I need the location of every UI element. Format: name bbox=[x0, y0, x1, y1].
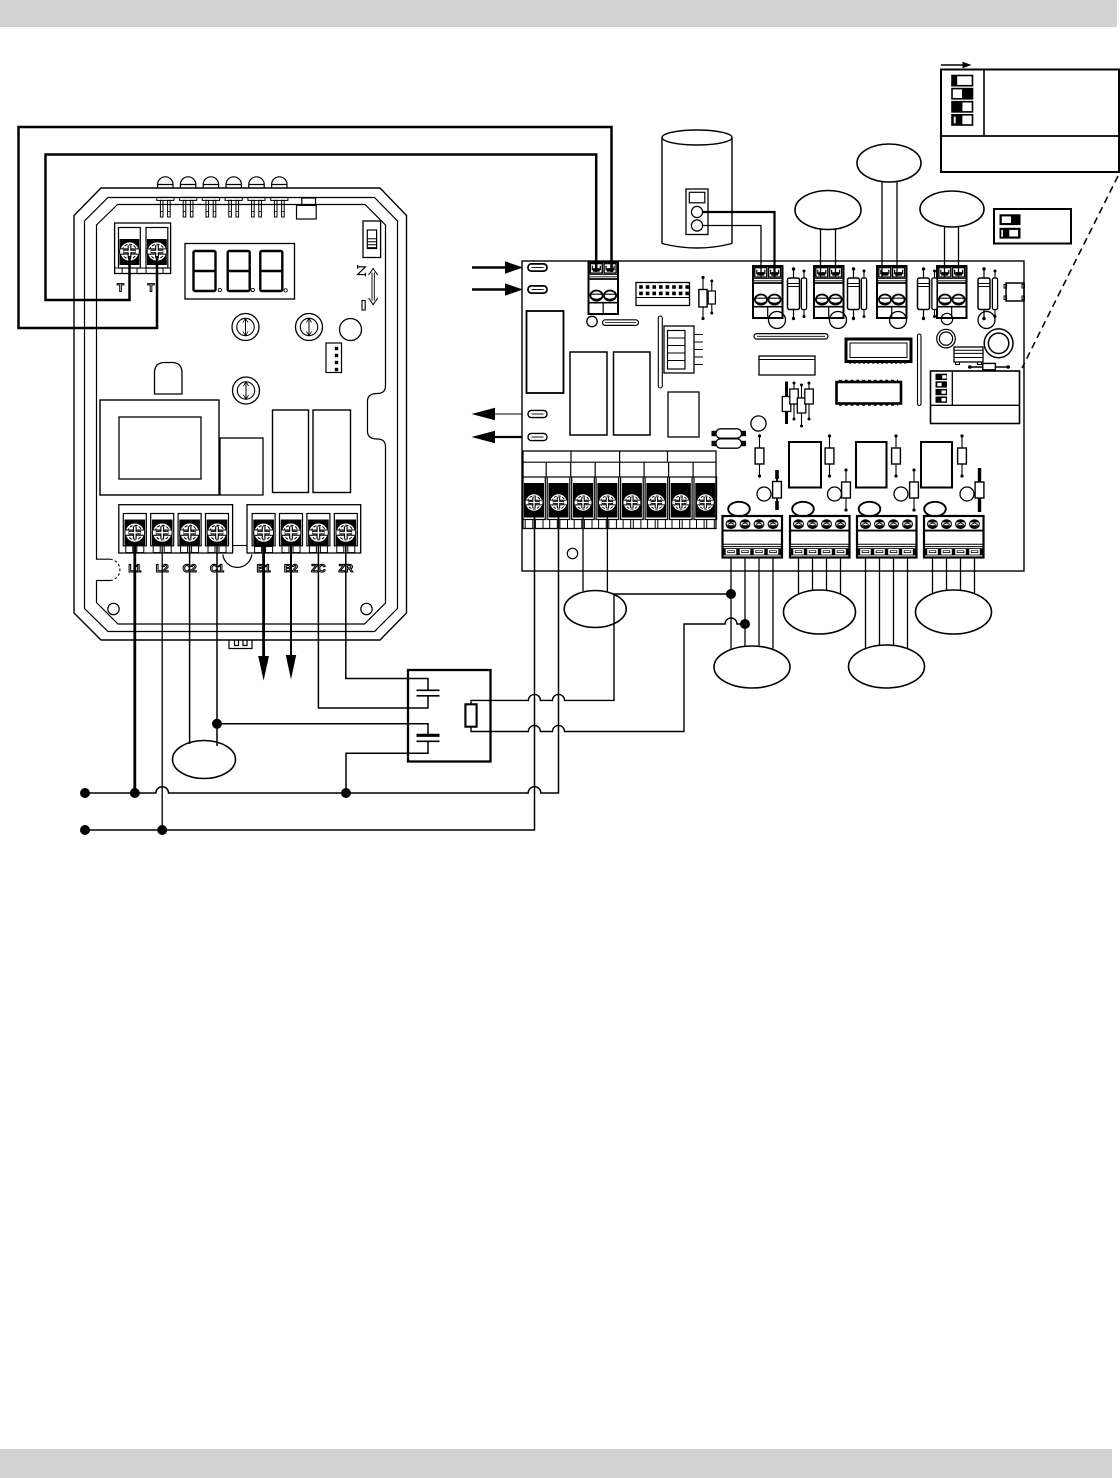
LED small under TB5 bbox=[941, 313, 952, 324]
small connector box top-right of pcb bbox=[297, 198, 317, 219]
board terminal block TB4 bbox=[877, 266, 907, 318]
pad oval P3 bbox=[859, 502, 881, 516]
strip second row dividers bbox=[546, 462, 693, 477]
wire TB7 pin2 down bbox=[812, 558, 814, 591]
junction dot L2 bus2 bbox=[157, 825, 167, 835]
svg-text:T: T bbox=[117, 282, 124, 294]
potentiometer RP2 bbox=[296, 314, 323, 341]
thermostat mounting hole left bbox=[108, 603, 119, 614]
callout oval B bbox=[714, 646, 790, 688]
wire TB6 pin2 down bbox=[744, 558, 746, 647]
T terminal block bbox=[115, 223, 171, 274]
main terminal strip frame bbox=[523, 451, 716, 529]
board terminal block TB3 bbox=[814, 266, 844, 318]
strip screw 4 bbox=[599, 494, 617, 512]
strip screw 3 bbox=[574, 494, 592, 512]
LED D1 bbox=[157, 177, 174, 217]
wire TB7 pin3 down bbox=[826, 558, 828, 591]
7-segment digit 2 bbox=[228, 251, 250, 291]
7-segment digit 1 bbox=[194, 251, 216, 291]
fuse jumper F5 bbox=[968, 363, 1010, 369]
thermostat middle case octagon bbox=[85, 198, 398, 632]
vertical bar right bbox=[918, 334, 922, 406]
switch range arrow bbox=[369, 269, 378, 305]
callout oval under strip bbox=[564, 591, 626, 628]
board terminal block TB5 bbox=[937, 266, 967, 318]
transformer T1 inner bbox=[119, 417, 201, 479]
strip terminal 4 bbox=[596, 477, 619, 529]
cylinder control panel bbox=[686, 189, 708, 235]
wire oval to TB3 pin2 bbox=[835, 229, 837, 277]
legend arrow bbox=[941, 62, 972, 68]
terminal T1 screw bbox=[120, 242, 140, 262]
twin cylinder component bbox=[712, 429, 747, 448]
wire C1 to capacitor C2 bbox=[217, 723, 408, 725]
LED D3 bbox=[202, 177, 219, 217]
fuse F2 bbox=[528, 286, 547, 293]
right terminal strip frame bbox=[247, 505, 361, 553]
board terminal block TB1 (thermostat input) bbox=[589, 262, 619, 314]
ring component bbox=[937, 329, 956, 348]
wire pass-through notch bbox=[223, 555, 252, 568]
7-segment digit 1 dot bbox=[218, 288, 221, 291]
junction dot bus1 return bbox=[341, 788, 351, 798]
LED L21 bbox=[757, 487, 771, 501]
label Z bbox=[358, 265, 366, 277]
LED L22 bbox=[828, 487, 842, 501]
junction dot TB6 pin1 bbox=[726, 589, 736, 599]
resistor R13 bbox=[932, 270, 937, 319]
diode row3 D27 bbox=[910, 468, 919, 511]
DIP switch module on board bbox=[931, 371, 1020, 424]
wire ZC to capacitor C1 bottom bbox=[318, 544, 408, 708]
buzzer circle bbox=[340, 319, 362, 341]
jumper JP1 bbox=[699, 276, 707, 320]
LED under TB4 bbox=[890, 312, 907, 329]
resistor R14 bbox=[992, 270, 997, 319]
sensor cylinder body bbox=[662, 130, 732, 248]
wire oval to TB5 pin2 bbox=[958, 227, 960, 278]
wire cylinder upper to TB2 bbox=[703, 212, 775, 277]
wire cylinder lower to TB2 bbox=[703, 226, 762, 278]
board terminal block TB2 bbox=[753, 266, 783, 318]
output terminal block TB9 bbox=[924, 516, 984, 558]
bus wire 2 bbox=[85, 512, 535, 830]
wire resistor bottom to TB6 pin2 bbox=[471, 618, 745, 732]
terminal ZR screw bbox=[336, 523, 356, 543]
crystal component with corner tabs bbox=[1004, 283, 1025, 301]
output terminal block TB7 bbox=[790, 516, 850, 558]
wire TB9 pin3 down bbox=[960, 558, 962, 592]
strip screw 8 bbox=[696, 494, 714, 512]
resistor R1 in box bbox=[465, 704, 476, 726]
terminal L1 unit bbox=[123, 514, 146, 553]
diode row3 D28 black bbox=[975, 468, 984, 512]
thermostat bottom tab bbox=[229, 641, 252, 649]
LED right bbox=[978, 312, 995, 329]
diode D11 bbox=[788, 267, 800, 320]
wire C2 terminal to oval bbox=[189, 544, 191, 744]
wire TB8 pin3 down bbox=[893, 558, 895, 646]
terminal B2 screw bbox=[281, 523, 301, 543]
long resistor bar R16 bbox=[754, 334, 828, 339]
resistor R12 bbox=[861, 270, 866, 319]
wire oval to TB4 pin2 bbox=[896, 182, 898, 278]
strip screw 6 bbox=[648, 494, 666, 512]
diode row2 D21 bbox=[755, 434, 764, 477]
capacitor C2 plates bbox=[417, 735, 440, 741]
bus wire 1 bbox=[85, 512, 559, 793]
wire strip4 to oval bbox=[606, 512, 608, 592]
wire TB9 pin1 down bbox=[932, 558, 934, 595]
diode row3 D26 bbox=[842, 468, 851, 511]
wire B1 arrow bbox=[258, 544, 269, 681]
wire TB8 pin4 down bbox=[907, 558, 909, 649]
capacitor C1 plates bbox=[417, 690, 440, 696]
relay K1 bbox=[273, 410, 309, 493]
terminal ZC screw bbox=[309, 523, 329, 543]
fuse F3 bbox=[528, 410, 547, 417]
diode row2 D22 bbox=[825, 434, 834, 477]
LCD module U3 bbox=[846, 339, 911, 363]
wire TB9 pin4 down bbox=[974, 558, 976, 595]
relay RY1 bbox=[570, 352, 607, 435]
resistor bar R15 bbox=[603, 320, 639, 326]
wire B2 arrow bbox=[286, 544, 296, 680]
connector J3 bbox=[664, 326, 703, 373]
input arrow 2 bbox=[472, 283, 523, 295]
wire TB7 pin1 down bbox=[798, 558, 800, 594]
relay RY4 bbox=[856, 442, 887, 488]
pad oval P4 bbox=[924, 502, 946, 516]
IC U4 bbox=[837, 381, 902, 405]
toroid coil bbox=[984, 329, 1013, 358]
board hole bbox=[567, 548, 577, 558]
wire thermostat T1 to board TB1 bbox=[46, 155, 597, 301]
terminal C2 unit bbox=[178, 514, 201, 553]
relay RY3 bbox=[789, 442, 821, 488]
wire TB6 pin1 down bbox=[730, 558, 732, 650]
junction dot TB6 pin2 bbox=[740, 619, 750, 629]
LED D6 bbox=[271, 177, 288, 217]
capacitor C1 bottom lead bbox=[408, 696, 428, 708]
bus wire 2 end dot bbox=[80, 825, 90, 835]
LED under TB1 bbox=[587, 316, 597, 326]
LED under TB3 bbox=[830, 312, 847, 329]
terminal C1 unit bbox=[206, 514, 229, 553]
terminal L1 screw bbox=[125, 523, 145, 543]
terminal C2 screw bbox=[180, 523, 200, 543]
resistor R11 bbox=[801, 270, 806, 319]
jumper cluster JP4 bbox=[790, 382, 799, 421]
capacitor block bbox=[220, 438, 263, 495]
wire resistor top to TB6 pin1 bbox=[471, 594, 731, 704]
7-segment digit 2 dot bbox=[251, 288, 254, 291]
strip terminal 7 bbox=[670, 477, 693, 529]
terminal L2 screw bbox=[152, 523, 172, 543]
strip terminal 3 bbox=[572, 477, 595, 529]
wire ZR to capacitor C1 bbox=[346, 544, 408, 679]
callout oval left bbox=[173, 741, 236, 779]
callout oval D bbox=[849, 645, 925, 688]
wire TB6 pin3 down bbox=[758, 558, 760, 646]
pad oval P1 bbox=[728, 502, 750, 516]
strip screw 2 bbox=[550, 494, 568, 512]
diode D12 bbox=[848, 267, 860, 320]
label I bbox=[362, 301, 365, 311]
callout oval over TB5 bbox=[920, 191, 984, 227]
jumper cluster JP3 bbox=[782, 382, 791, 425]
start component box bbox=[408, 670, 491, 762]
potentiometer RP3 bbox=[233, 377, 260, 404]
strip terminal 2 bbox=[547, 477, 570, 529]
transformer block on board bbox=[527, 311, 564, 393]
LED L24 bbox=[960, 487, 974, 501]
terminal L2 unit bbox=[151, 514, 174, 553]
terminal B2 unit bbox=[280, 514, 303, 553]
strip screw 7 bbox=[672, 494, 690, 512]
thermostat outer case octagon bbox=[74, 188, 407, 640]
left terminal strip frame bbox=[119, 505, 233, 553]
diode D13 bbox=[918, 267, 930, 320]
footer gray bar bbox=[0, 1449, 1112, 1478]
LED under TB2 bbox=[769, 312, 786, 329]
jumper cluster JP5 bbox=[797, 384, 806, 428]
input arrow 1 bbox=[472, 261, 523, 273]
wire TB8 pin2 down bbox=[879, 558, 881, 646]
sensor blob bbox=[155, 363, 183, 395]
strip top row line bbox=[523, 461, 716, 463]
terminal B1 screw bbox=[254, 523, 274, 543]
legend DIP box bbox=[941, 70, 1119, 173]
strip terminal 6 bbox=[645, 477, 668, 529]
callout oval over TB3 bbox=[795, 191, 861, 230]
LED D5 bbox=[248, 177, 265, 217]
strip terminal 8 bbox=[694, 477, 717, 529]
transformer T1 outer bbox=[100, 400, 219, 495]
7-segment digit 3 bbox=[260, 251, 282, 291]
wire TB6 pin4 down bbox=[772, 558, 774, 649]
callout oval C bbox=[784, 590, 856, 634]
jumper cluster JP6 bbox=[805, 382, 814, 421]
output terminal block TB8 bbox=[857, 516, 917, 558]
strip terminal 5 bbox=[621, 477, 644, 529]
strip terminal 1 bbox=[523, 477, 546, 529]
wire strip3 to oval bbox=[582, 512, 584, 591]
4-pin connector J1 bbox=[326, 343, 342, 373]
relay RY5 bbox=[921, 442, 952, 488]
strip second row line bbox=[523, 476, 716, 478]
vertical resistor bar bbox=[658, 316, 662, 388]
wire capacitor C2 return to bus bbox=[346, 753, 408, 793]
output arrow 1 bbox=[472, 408, 523, 420]
wire L1 to bus1 bbox=[133, 544, 136, 793]
slide switch SW1 bbox=[363, 221, 381, 258]
fuse F1 bbox=[528, 264, 547, 271]
wire oval to TB4 pin1 bbox=[881, 182, 883, 278]
output arrow 2 bbox=[472, 431, 523, 443]
strip screw 5 bbox=[623, 494, 641, 512]
circle pad under strip bbox=[751, 416, 766, 431]
wire oval to TB5 pin1 bbox=[944, 227, 946, 278]
header gray bar bbox=[0, 0, 1117, 27]
capacitor C1 top lead bbox=[408, 679, 428, 691]
fuse F4 bbox=[528, 433, 547, 440]
capacitor C2 bottom lead bbox=[408, 741, 428, 753]
component box U2 bbox=[759, 356, 815, 375]
strip screw 1 bbox=[525, 494, 543, 512]
wire TB7 pin4 down bbox=[840, 558, 842, 595]
LED D4 bbox=[225, 177, 242, 217]
jumper JP2 bbox=[708, 280, 715, 315]
wire TB8 pin1 down bbox=[865, 558, 867, 649]
diode row2 D23 bbox=[892, 434, 901, 477]
terminal B1 unit bbox=[252, 514, 275, 553]
terminal C1 screw bbox=[207, 523, 227, 543]
wire oval to TB3 pin1 bbox=[820, 229, 822, 277]
diode row2 D24 bbox=[958, 434, 967, 477]
thermostat mounting hole right bbox=[361, 603, 372, 614]
terminal ZR unit bbox=[334, 514, 357, 553]
bus wire 1 end dot bbox=[80, 788, 90, 798]
LED L23 bbox=[894, 487, 908, 501]
output terminal block TB6 bbox=[723, 516, 783, 558]
thermostat pcb dashed knockout arc bbox=[110, 559, 120, 580]
capacitor block C10 bbox=[668, 392, 699, 437]
callout oval E bbox=[916, 590, 992, 634]
svg-text:T: T bbox=[147, 282, 154, 294]
terminal T2 screw bbox=[147, 242, 167, 262]
wire L2 to bus2 bbox=[161, 544, 163, 830]
callout oval over TB4 bbox=[857, 144, 921, 182]
thermostat pcb outline left upper segment bbox=[97, 205, 118, 560]
relay RY2 bbox=[614, 352, 651, 435]
wire C1 terminal down bbox=[216, 544, 218, 746]
pad oval P2 bbox=[792, 502, 814, 516]
control board outline bbox=[522, 261, 1024, 571]
thermostat pcb outline with keyhole notch bbox=[97, 205, 386, 625]
relay K2 bbox=[313, 410, 351, 493]
wire TB9 pin2 down bbox=[946, 558, 948, 592]
detail dashed leader line bbox=[1022, 176, 1118, 368]
16-pin header J2 bbox=[636, 283, 690, 306]
capacitor C2 top lead bbox=[408, 724, 428, 736]
potentiometer RP1 bbox=[232, 314, 259, 341]
relay block small bbox=[954, 347, 983, 365]
diode D14 bbox=[978, 267, 990, 320]
diode row3 D25 bbox=[773, 470, 782, 510]
LED D2 bbox=[180, 177, 197, 217]
junction dot L1 bus1 bbox=[130, 788, 140, 798]
strip bridge line bbox=[233, 545, 247, 547]
7-segment digit 3 dot bbox=[284, 289, 287, 292]
terminal ZC unit bbox=[307, 514, 330, 553]
small DIP legend box bbox=[994, 209, 1071, 244]
junction dot C1 bbox=[212, 719, 222, 729]
strip top row dividers bbox=[571, 451, 668, 462]
7-segment display bezel bbox=[185, 244, 295, 300]
wire thermostat T2 to board TB1 bbox=[19, 127, 612, 328]
